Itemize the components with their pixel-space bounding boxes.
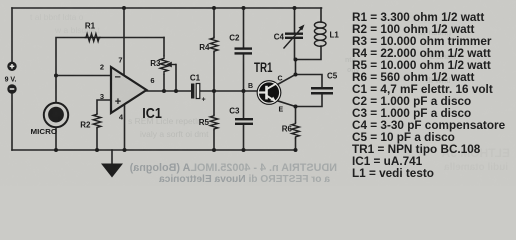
node mic on ground rail (54, 148, 58, 152)
wire R5 bottom (213, 130, 215, 150)
wire microphone column (56, 38, 164, 104)
wire C3 bottom (243, 125, 245, 150)
inductor L1 coil (314, 22, 326, 46)
node R4 on +9V rail (212, 6, 216, 10)
wire R5 top (213, 91, 215, 115)
node R5 on ground rail (212, 148, 216, 152)
resistor R2 (93, 113, 101, 128)
node C3 on ground rail (242, 148, 246, 152)
capacitor C1 electrolytic (191, 84, 206, 104)
node pin7 on +9V rail (122, 6, 126, 10)
trimmer R3 wiper arrow (166, 62, 176, 68)
node R4 R5 on signal (212, 89, 216, 93)
op-amp IC1 (111, 67, 147, 113)
node R6 on ground rail (294, 148, 298, 152)
ground symbol (101, 164, 123, 178)
ghost bleed-through text bottom (129, 162, 337, 185)
wire C5 top branch (296, 75, 323, 88)
capacitor C3 (235, 118, 253, 125)
wire R3 bottom to output (163, 75, 165, 92)
wire R3 top (163, 38, 165, 56)
wire pin 3 to R2 (97, 100, 111, 113)
resistor R5 (210, 115, 218, 131)
wire C1 to base (200, 90, 258, 92)
wire R6 to rail (295, 139, 297, 151)
wire R4 top (213, 8, 215, 37)
wire emitter to R6 (295, 107, 297, 123)
node mic to pin 2 (54, 74, 58, 78)
wire collector lead (278, 75, 296, 85)
wire C4 column top (294, 8, 296, 33)
resistor R6 (292, 122, 300, 138)
wire bottom ground rail (12, 149, 296, 151)
wire L1 top (320, 8, 322, 22)
wire ground stub (111, 150, 113, 164)
node C2 on +9V rail (242, 6, 246, 10)
capacitor C5 (311, 87, 333, 95)
resistor R1 (85, 34, 101, 42)
wire L1 bottom to tank node (296, 46, 322, 60)
wire C5 bottom branch (296, 95, 323, 107)
capacitor C4 compensator (284, 25, 305, 49)
transistor TR1 (257, 80, 282, 105)
node C4 on +9V rail (293, 6, 297, 10)
wire C2 to signal (243, 55, 245, 91)
wire left battery bottom (11, 94, 13, 151)
wire pin 7 supply (123, 8, 125, 76)
wire emitter lead (278, 101, 296, 107)
ghost bleed-through text right panel (30, 12, 456, 139)
wire top supply rail (12, 7, 322, 9)
node R3 bottom on output (162, 89, 166, 93)
wire R3 wiper down (175, 65, 177, 92)
wire R2 to rail (96, 128, 98, 150)
wire pin 2 input (56, 75, 111, 77)
node tank LC (294, 58, 298, 62)
wire C4 bottom to tank node (294, 39, 296, 60)
resistor R4 (210, 37, 218, 53)
node pin4 on ground rail (123, 148, 127, 152)
battery negative terminal (7, 84, 16, 93)
battery positive terminal (7, 62, 16, 71)
wire C3 top (243, 91, 245, 118)
wire tank node to collector node (295, 60, 297, 75)
capacitor C2 (235, 47, 253, 54)
node collector (294, 73, 298, 77)
node emitter (294, 105, 298, 109)
wire microphone to rail (55, 128, 57, 150)
node C2 C3 on signal (242, 89, 246, 93)
parts list text (352, 11, 506, 180)
node R2 on ground rail (95, 148, 99, 152)
wire output pin6 to C1 (147, 90, 192, 92)
resistor R3 trimmer body (160, 56, 168, 75)
wire C2 column (243, 8, 245, 47)
wire pin 4 to ground rail (124, 104, 126, 150)
wire R4 bottom (213, 52, 215, 91)
node R3 wiper on output (174, 89, 178, 93)
wire left battery top (11, 8, 13, 62)
microphone MICRO (44, 103, 68, 127)
